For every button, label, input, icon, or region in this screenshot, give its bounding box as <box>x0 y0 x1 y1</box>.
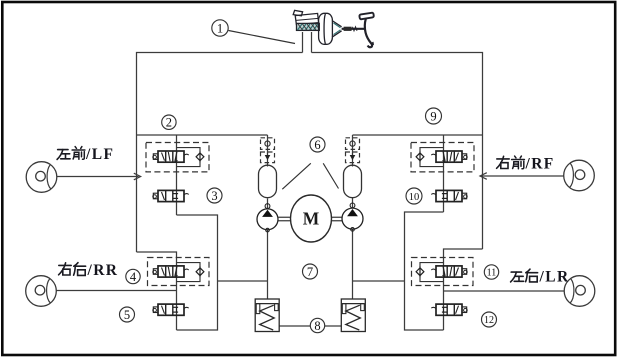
wire RF brake line <box>481 175 564 177</box>
label 2 circle <box>162 115 176 129</box>
motor M <box>291 195 332 242</box>
wire accumulator8 right stub <box>325 325 342 327</box>
svg-text:6: 6 <box>314 138 320 152</box>
wheel LR <box>564 276 595 307</box>
label 4 circle <box>126 269 140 283</box>
solenoid valve 11 (LR inlet) <box>431 266 467 277</box>
reservoir cap <box>293 10 302 15</box>
text label RF: hanzi qian <box>512 156 525 169</box>
solenoid valve 12 (LR outlet) <box>431 304 467 315</box>
leader line from label 1 <box>229 31 296 44</box>
solenoid valve 11 dashed enclosure <box>412 258 474 286</box>
wire right accumulator to pump <box>352 197 354 208</box>
svg-text:2: 2 <box>166 116 172 130</box>
wire left vertical to valve4 <box>137 252 177 330</box>
wire valve3 outlet to return <box>177 215 218 330</box>
label 3 circle <box>207 188 222 203</box>
wire right damper column top <box>352 135 354 167</box>
svg-text:8: 8 <box>314 319 320 333</box>
label 9 circle <box>426 108 442 124</box>
solenoid valve 2 dashed enclosure <box>146 143 209 172</box>
wire left pump suction down <box>267 230 269 300</box>
text label LR: hanzi zuo <box>511 272 524 282</box>
damper and high-pressure accumulator right (item 6) <box>344 138 362 198</box>
wire motor shaft right <box>331 217 342 220</box>
label 10 circle <box>406 188 422 204</box>
svg-text:12: 12 <box>484 315 494 326</box>
check valve loop of valve 2 <box>177 148 201 167</box>
solenoid valve 10 (RF outlet) <box>431 190 467 201</box>
reservoir body <box>295 13 318 24</box>
master cylinder seals band <box>297 23 320 30</box>
pedal arm <box>365 19 372 47</box>
check valve loop of valve 11 <box>420 263 444 282</box>
booster shell <box>319 13 333 44</box>
wire valve9-valve10 line <box>443 135 445 212</box>
label 1 circle <box>212 20 228 36</box>
pushrod <box>342 28 366 30</box>
wire right vertical to valve11 <box>444 249 483 330</box>
wire right return to pump suction <box>353 280 405 282</box>
wire motor shaft left <box>279 217 291 220</box>
label 12 circle <box>482 312 497 327</box>
wheel RF <box>564 160 595 191</box>
wire left accumulator to pump <box>267 199 269 209</box>
wheel RR <box>26 276 57 307</box>
check valve loop of valve 4 <box>177 263 201 282</box>
text label RR: hanzi you <box>59 263 72 275</box>
check valve CV2 <box>196 151 204 162</box>
solenoid valve 3 (LF outlet) <box>153 190 189 201</box>
solenoid valve 4 dashed enclosure <box>148 258 210 286</box>
svg-text:/RF: /RF <box>525 156 555 173</box>
wire RR brake line <box>57 290 177 292</box>
svg-text:/RR: /RR <box>87 262 119 279</box>
master cylinder and booster assembly (item 1) <box>293 10 374 47</box>
svg-text:/LF: /LF <box>85 146 114 163</box>
pedal pad <box>359 13 374 20</box>
solenoid valve 4 (RR inlet) <box>153 266 189 277</box>
svg-text:11: 11 <box>487 268 497 279</box>
low pressure accumulator right (item 8) <box>341 299 365 332</box>
svg-text:5: 5 <box>124 308 130 322</box>
wire valve10 outlet to return <box>405 212 444 330</box>
svg-text:9: 9 <box>430 109 436 123</box>
check valve CV9 <box>416 151 424 162</box>
text label RR: hanzi hou <box>74 263 86 276</box>
svg-text:10: 10 <box>409 192 420 203</box>
wire accumulator8 left stub <box>280 325 311 327</box>
wire master cylinder riser left <box>302 32 304 53</box>
booster cone <box>332 21 342 38</box>
wheel LF <box>26 162 57 193</box>
pump left (item 7) <box>257 204 278 232</box>
svg-text:3: 3 <box>211 189 217 203</box>
label 5 circle <box>120 307 135 322</box>
wire left damper column top <box>267 135 269 167</box>
solenoid valve 9 dashed enclosure <box>411 143 474 172</box>
low pressure accumulator left (item 8) <box>255 299 279 332</box>
wire right pump suction down <box>352 230 354 300</box>
wire top edge right segment <box>312 53 483 250</box>
svg-text:1: 1 <box>217 22 223 36</box>
leader line from label 6 to left accumulator <box>282 163 311 189</box>
text label RF: hanzi you <box>497 156 510 168</box>
solenoid valve 9 (RF inlet) <box>431 151 467 162</box>
svg-text:/LR: /LR <box>539 269 570 286</box>
solenoid valve 5 (RR outlet) <box>153 304 189 315</box>
label 7 circle <box>303 264 318 279</box>
label 11 circle <box>484 265 498 279</box>
damper and high-pressure accumulator left (item 6) <box>259 138 277 198</box>
wire branch circuit1 y136 <box>137 134 268 136</box>
svg-text:4: 4 <box>130 270 137 284</box>
label 6 circle <box>310 137 325 152</box>
svg-text:M: M <box>303 209 320 229</box>
check valve CV4 <box>196 266 204 277</box>
check valve loop of valve 9 <box>420 148 444 167</box>
label 8 circle <box>310 318 324 332</box>
wire LR brake line <box>444 290 565 292</box>
wire top edge left segment <box>137 53 303 253</box>
solenoid valve 2 (LF inlet) <box>153 151 189 162</box>
arrowhead LF junction <box>134 173 141 180</box>
wire LF brake line <box>57 176 139 178</box>
check valve CV11 <box>416 266 424 277</box>
wire branch circuit2 y136 <box>353 134 483 136</box>
wire left return to pump suction <box>218 280 268 282</box>
text label LF: hanzi qian <box>72 147 85 160</box>
svg-text:7: 7 <box>307 265 313 279</box>
wire master cylinder riser right <box>311 32 313 53</box>
text label LR: hanzi hou <box>526 269 538 282</box>
text label LF: hanzi zuo <box>57 150 70 160</box>
arrowhead RF junction <box>480 173 487 180</box>
leader line from label 6 to right accumulator <box>323 163 338 188</box>
pump right (item 7) <box>342 203 363 231</box>
wire valve2-valve3 line <box>176 135 178 215</box>
